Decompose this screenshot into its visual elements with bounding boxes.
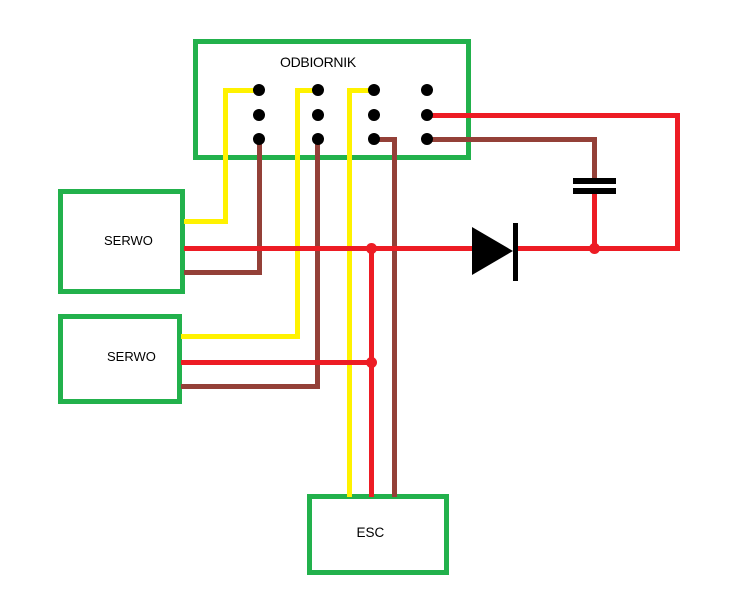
wire brown capacitor leg: horizontal from pin 4 row 3: [427, 137, 597, 142]
wire yellow servo1 signal: top horizontal into pin 1: [223, 88, 259, 93]
wire yellow servo2 signal: vertical riser: [295, 88, 300, 339]
wire brown ESC ground: vertical down to ESC: [392, 137, 397, 498]
wire brown servo1 ground: horizontal into SERWO1: [184, 270, 262, 275]
wire yellow servo1 signal: vertical riser: [223, 88, 228, 224]
receiver pin col1 row3: [253, 133, 265, 145]
receiver pin col2 row2: [312, 109, 324, 121]
label SERWO 1: [104, 233, 153, 248]
wire yellow ESC signal: vertical riser from ESC: [347, 88, 352, 498]
box SERWO 1: [58, 189, 185, 294]
wire brown servo2 ground: vertical from pin 2 row 3: [315, 139, 320, 389]
wire brown capacitor leg: vertical down to capacitor: [592, 137, 597, 180]
receiver pin col1 row2: [253, 109, 265, 121]
label ODBIORNIK: [280, 54, 356, 70]
label ESC: [357, 525, 385, 540]
box ODBIORNIK (receiver): [193, 39, 471, 160]
junction dot red at capacitor / bus: [589, 243, 600, 254]
receiver pin col3 row1: [368, 84, 380, 96]
receiver pin col3 row2: [368, 109, 380, 121]
wire yellow servo1 signal: horizontal from SERWO1 to bend: [184, 219, 228, 224]
receiver pin col4 row2: [421, 109, 433, 121]
wire brown servo2 ground: horizontal into SERWO2: [181, 384, 320, 389]
wire red battery right: vertical down right side: [675, 113, 680, 251]
box SERWO 2: [58, 314, 182, 404]
wire brown servo1 ground: vertical from pin 1 row 3: [257, 139, 262, 275]
wire yellow ESC signal: top horizontal into pin 3: [347, 88, 374, 93]
wire red main bus left of diode to SERWO1: [184, 246, 476, 251]
wire red capacitor leg: vertical from capacitor to bus: [592, 190, 597, 248]
junction dot red at SERWO2 branch: [366, 357, 377, 368]
wire red main bus right of diode: [514, 246, 680, 251]
receiver pin col2 row1: [312, 84, 324, 96]
wire red branch to ESC: vertical: [369, 246, 374, 497]
receiver pin col3 row3: [368, 133, 380, 145]
wire red SERWO2 supply: horizontal: [181, 360, 374, 365]
wire yellow servo2 signal: top horizontal into pin 2: [295, 88, 319, 93]
label SERWO 2: [107, 349, 156, 364]
junction dot red at main bus / ESC branch: [366, 243, 377, 254]
receiver pin col2 row3: [312, 133, 324, 145]
box ESC: [307, 494, 449, 575]
wire brown ESC ground: horizontal from pin 3 row 3: [374, 137, 397, 142]
diode D1 cathode bar: [513, 223, 518, 281]
receiver pin col1 row1: [253, 84, 265, 96]
wire red battery top: horizontal from pin 4 row 2: [427, 113, 680, 118]
capacitor C1 top plate: [573, 178, 616, 184]
capacitor C1 bottom plate: [573, 188, 616, 194]
wire yellow servo2 signal: horizontal from SERWO2 to bend: [181, 334, 300, 339]
receiver pin col4 row1: [421, 84, 433, 96]
receiver pin col4 row3: [421, 133, 433, 145]
diode D1 triangle (anode): [472, 227, 513, 275]
